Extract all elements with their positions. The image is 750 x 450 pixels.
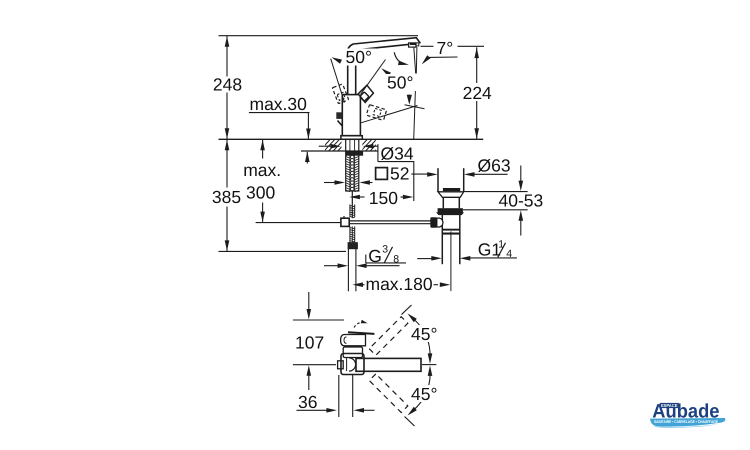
svg-text:150: 150: [369, 188, 398, 208]
svg-text:107: 107: [295, 333, 324, 353]
svg-text:Ø34: Ø34: [381, 144, 414, 164]
svg-text:max.: max.: [243, 160, 281, 180]
svg-text:50°: 50°: [346, 47, 372, 67]
svg-text:4: 4: [506, 248, 512, 260]
svg-text:52: 52: [390, 163, 409, 183]
svg-text:45°: 45°: [411, 384, 437, 404]
svg-text:SANITAIRE • CARRELAGE • CHAUFF: SANITAIRE • CARRELAGE • CHAUFFAGE: [654, 419, 718, 424]
svg-text:300: 300: [246, 182, 275, 202]
svg-text:max.180: max.180: [366, 274, 433, 294]
svg-text:248: 248: [213, 74, 242, 94]
svg-text:385: 385: [212, 187, 241, 207]
svg-text:max.30: max.30: [250, 94, 308, 114]
svg-text:8: 8: [393, 254, 399, 266]
svg-text:7°: 7°: [437, 38, 454, 58]
svg-text:Ø63: Ø63: [478, 156, 511, 176]
svg-text:36: 36: [298, 392, 317, 412]
svg-text:50°: 50°: [387, 73, 413, 93]
svg-text:45°: 45°: [411, 324, 437, 344]
svg-text:3: 3: [382, 243, 388, 255]
svg-text:40-53: 40-53: [499, 191, 544, 211]
svg-text:1: 1: [498, 238, 504, 250]
svg-text:224: 224: [463, 83, 492, 103]
svg-text:ESPACE: ESPACE: [661, 403, 678, 408]
